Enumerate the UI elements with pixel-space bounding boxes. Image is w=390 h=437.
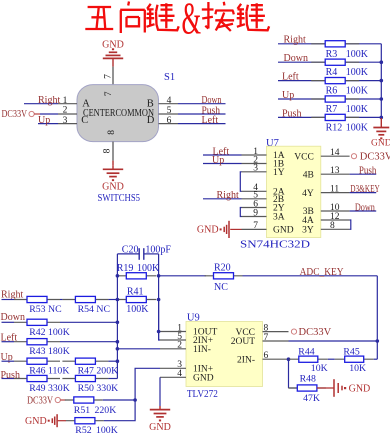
- resistor R46 110K: [14, 360, 60, 362]
- svg-text:R7: R7: [326, 104, 338, 115]
- pin 4 stub: [159, 103, 179, 105]
- junction B/R41: [157, 298, 161, 302]
- pin 6 stub: [159, 123, 179, 125]
- svg-text:D3&KEY: D3&KEY: [350, 184, 380, 195]
- U9 pin 6 (2IN-): [263, 358, 289, 360]
- pin 2 stub: [58, 113, 77, 115]
- svg-text:Push: Push: [1, 370, 20, 381]
- wire R45 to ADC bus: [374, 358, 378, 360]
- svg-text:ADC_KEY: ADC_KEY: [300, 267, 344, 278]
- wire Left row to node A: [60, 341, 117, 343]
- U7 pin 2 (1B): [242, 163, 267, 165]
- svg-text:GND: GND: [102, 182, 124, 193]
- svg-text:&: &: [182, 0, 202, 43]
- svg-text:11: 11: [330, 184, 339, 194]
- svg-text:R52: R52: [75, 425, 91, 436]
- svg-text:4: 4: [167, 96, 172, 106]
- svg-text:Right: Right: [38, 95, 60, 106]
- U7 pin 14 (VCC): [321, 155, 350, 157]
- junction A/pin2: [116, 347, 120, 351]
- wire R44 to R45: [328, 358, 335, 360]
- IC U9 body: [186, 322, 263, 387]
- resistor R41 100K: [116, 299, 156, 301]
- junction B/pin1: [157, 330, 161, 334]
- svg-text:Down: Down: [355, 202, 375, 213]
- resistor R44 10K: [289, 358, 328, 360]
- svg-text:R6: R6: [326, 86, 338, 97]
- wire net Left row: [2, 341, 15, 343]
- wire S1 pin7 stem: [112, 67, 114, 85]
- svg-text:DC33V: DC33V: [360, 152, 390, 163]
- junction A/Left: [116, 340, 120, 344]
- svg-text:4Y: 4Y: [302, 189, 314, 199]
- power port DC33V at U9 pin8: [291, 329, 296, 334]
- U7 pin 10 (3B): [321, 210, 350, 212]
- ground GND (U9 pin4): [159, 406, 161, 410]
- wire U7 pin12 to pin8 loop: [350, 220, 351, 229]
- svg-text:9: 9: [253, 208, 258, 218]
- wire DC33V to pin2: [40, 113, 58, 115]
- junction 2OUT/ADC: [376, 339, 380, 343]
- wire Push row to node A: [108, 378, 117, 380]
- wire net Down (to R4): [278, 61, 381, 63]
- svg-text:7: 7: [104, 74, 114, 79]
- U7 pin 9 (3A): [242, 216, 267, 218]
- U7 pin 11 (4Y): [321, 192, 350, 194]
- svg-text:3: 3: [253, 164, 258, 174]
- resistor R48 47K: [289, 387, 298, 389]
- svg-text:330K: 330K: [48, 383, 70, 394]
- svg-text:13: 13: [330, 166, 340, 176]
- IC U7 body: [267, 146, 321, 237]
- wire U9 pin4 to GND: [159, 377, 161, 406]
- svg-text:100K: 100K: [346, 104, 369, 115]
- wire node B vertical: [158, 254, 160, 340]
- resistor R6 100K: [311, 80, 359, 82]
- svg-text:R54: R54: [78, 304, 94, 315]
- svg-text:2: 2: [63, 106, 68, 116]
- wire Up row to node A: [108, 360, 117, 362]
- wire vertical GND bus: [380, 44, 382, 118]
- svg-text:1Y: 1Y: [273, 168, 285, 178]
- wire node A vertical: [116, 254, 118, 379]
- svg-text:R41: R41: [127, 286, 144, 297]
- svg-text:R49: R49: [29, 383, 45, 394]
- wire net Right row: [2, 299, 15, 301]
- U7 pin 5 (2B): [242, 198, 267, 200]
- svg-text:7: 7: [264, 333, 269, 343]
- svg-text:GND: GND: [149, 422, 171, 433]
- svg-text:2OUT: 2OUT: [231, 337, 255, 347]
- svg-text:100K: 100K: [137, 263, 160, 274]
- U7 pin 4 (2A): [242, 190, 267, 192]
- wire net Push row: [2, 378, 15, 380]
- resistor R19 100K: [116, 275, 156, 277]
- junction A/Down: [116, 321, 120, 325]
- resistor R47 200K: [62, 360, 108, 362]
- resistor R50 330K: [62, 378, 108, 380]
- wire net Push (to R12): [278, 116, 381, 118]
- svg-text:6: 6: [264, 351, 269, 361]
- svg-text:180K: 180K: [48, 346, 70, 357]
- svg-text:R48: R48: [300, 373, 316, 384]
- svg-text:8: 8: [330, 221, 335, 231]
- svg-text:2IN-: 2IN-: [237, 355, 255, 365]
- svg-text:R12: R12: [326, 122, 343, 133]
- svg-text:R19: R19: [117, 263, 134, 274]
- capacitor C20 100pF: [117, 253, 139, 255]
- switch S1 body: [77, 85, 159, 142]
- svg-text:Down: Down: [1, 312, 25, 323]
- wire net Push (S1 pin5): [178, 113, 226, 115]
- U7 pin 3 (1Y): [242, 171, 267, 173]
- svg-text:Right: Right: [284, 35, 306, 46]
- wire B to R20: [159, 275, 206, 277]
- resistor R45 10K: [335, 358, 374, 360]
- svg-text:14: 14: [330, 148, 340, 158]
- svg-text:GND: GND: [349, 383, 371, 394]
- svg-text:7: 7: [104, 91, 114, 96]
- U7 pin 8 (3Y): [321, 228, 350, 230]
- wire net Push from U7 pin13: [350, 173, 377, 175]
- svg-text:3: 3: [63, 116, 68, 126]
- junction node bus/R7: [380, 97, 384, 101]
- svg-text:GND: GND: [197, 225, 219, 236]
- U9 pin 2 (1IN-): [160, 348, 186, 350]
- svg-text:100K: 100K: [346, 49, 369, 60]
- resistor R52 100K: [66, 420, 104, 422]
- U9 pin 7 (2OUT): [263, 340, 289, 342]
- junction C (R51/R52/1IN+): [133, 398, 137, 402]
- wire net Right (to R3): [278, 43, 381, 45]
- svg-text:R42: R42: [29, 327, 45, 338]
- resistor R20 NC: [205, 275, 243, 277]
- svg-text:Left: Left: [202, 115, 219, 126]
- svg-text:110K: 110K: [48, 366, 69, 377]
- junction A/Up: [116, 359, 120, 363]
- resistor R53 NC: [14, 299, 60, 301]
- title 五向键&按键: [85, 2, 269, 34]
- wire R52 up to node C: [104, 400, 135, 421]
- junction A/R19: [116, 274, 120, 278]
- pin 3 stub: [58, 123, 77, 125]
- svg-text:GND: GND: [25, 416, 47, 427]
- resistor R42 100K: [14, 321, 60, 323]
- svg-text:C20: C20: [122, 244, 139, 255]
- svg-text:NC: NC: [96, 304, 110, 315]
- svg-text:4: 4: [177, 369, 182, 379]
- svg-text:Up: Up: [282, 90, 294, 101]
- ground GND bottom of S1: [112, 161, 114, 166]
- wire S1 pin8 stem: [112, 142, 114, 161]
- svg-text:Push: Push: [282, 108, 301, 119]
- junction node bus/R12: [380, 116, 384, 120]
- U7 pin 7 (GND): [242, 228, 267, 230]
- svg-text:100K: 100K: [346, 122, 369, 133]
- svg-text:220K: 220K: [95, 405, 117, 416]
- svg-text:5: 5: [167, 106, 172, 116]
- junction A/R41: [116, 298, 120, 302]
- wire net Up (to R7): [278, 98, 381, 100]
- wire net Left (to R6): [278, 80, 381, 82]
- U9 pin 5 (2IN+): [160, 339, 186, 341]
- junction node bus/R4: [380, 60, 384, 64]
- svg-text:SWITCHS5: SWITCHS5: [98, 192, 141, 204]
- svg-text:S1: S1: [164, 72, 175, 83]
- svg-text:CENTERCOMMON: CENTERCOMMON: [83, 108, 154, 119]
- wire net Up (S1 pin3): [38, 123, 58, 125]
- U9 pin 3 (1IN+): [160, 367, 186, 369]
- svg-text:Up: Up: [212, 155, 224, 166]
- junction pin6 node: [287, 357, 291, 361]
- svg-text:Up: Up: [38, 115, 50, 126]
- svg-text:DC33V: DC33V: [299, 327, 332, 338]
- wire U7 pin6 to pin9 loop: [240, 208, 241, 217]
- wire R48 to GND: [317, 387, 334, 389]
- wire net Down (S1 pin4): [178, 103, 226, 105]
- wire R51 to node C: [103, 399, 135, 401]
- wire ADC_KEY vertical: [376, 276, 378, 359]
- svg-text:10K: 10K: [349, 363, 366, 374]
- wire net Down from U7 pin10: [350, 210, 377, 212]
- wire net Right to U7 pin5: [203, 198, 242, 200]
- U7 pin 12 (4A): [321, 219, 350, 221]
- svg-text:R50: R50: [78, 383, 94, 394]
- svg-text:100pF: 100pF: [145, 244, 171, 255]
- U9 pin 1 (1OUT): [160, 331, 186, 333]
- svg-text:100K: 100K: [346, 67, 369, 78]
- U7 pin 1 (1A): [242, 154, 267, 156]
- ground GND (R network): [380, 118, 382, 124]
- svg-text:VCC: VCC: [294, 152, 314, 162]
- wire net Left to U7 pin1: [203, 154, 242, 156]
- wire net Right (S1 pin1): [24, 103, 58, 105]
- svg-text:1IN-: 1IN-: [193, 345, 211, 355]
- wire B to pin1: [159, 331, 160, 333]
- svg-text:R43: R43: [29, 346, 45, 357]
- resistor R54 NC: [62, 299, 108, 301]
- pin 5 stub: [159, 113, 179, 115]
- svg-text:GND: GND: [193, 374, 214, 384]
- svg-text:Push: Push: [359, 166, 377, 177]
- wire U9 pin7 (2OUT) to ADC bus: [289, 340, 378, 342]
- resistor R12 100K: [311, 116, 359, 118]
- svg-text:3Y: 3Y: [302, 226, 314, 236]
- wire net Up row: [2, 360, 15, 362]
- wire Right row to node A: [108, 299, 117, 301]
- svg-text:R20: R20: [214, 262, 231, 273]
- wire between R53 R54: [60, 299, 62, 301]
- svg-text:2: 2: [177, 341, 182, 351]
- resistor R43 180K: [14, 341, 60, 343]
- wire net D3&KEY from U7 pin11: [350, 192, 377, 194]
- svg-text:330K: 330K: [96, 383, 118, 394]
- svg-text:1: 1: [63, 96, 68, 106]
- wire node B down to U9 pin1/pin5: [159, 300, 160, 341]
- svg-text:200K: 200K: [96, 366, 118, 377]
- wire Down row to node A: [60, 321, 117, 323]
- svg-text:100K: 100K: [346, 86, 369, 97]
- svg-text:6: 6: [167, 116, 172, 126]
- wire U7 pin3 to pin4 loop: [240, 172, 241, 192]
- U7 pin 13 (4B): [321, 173, 350, 175]
- wire node C to U9 pin3: [135, 368, 160, 400]
- power port DC33V at U7 pin14: [351, 154, 356, 159]
- svg-text:R53: R53: [29, 304, 45, 315]
- svg-text:8: 8: [103, 148, 113, 153]
- svg-text:R51: R51: [74, 405, 90, 416]
- svg-text:3A: 3A: [273, 213, 285, 223]
- svg-text:4B: 4B: [303, 170, 314, 180]
- resistor R3 100K: [311, 43, 359, 45]
- svg-text:TLV272: TLV272: [187, 388, 218, 400]
- resistor R49 330K: [14, 378, 60, 380]
- wire net Down row: [2, 321, 15, 323]
- wire net ADC_KEY: [243, 275, 378, 277]
- resistor R4 100K: [311, 61, 359, 63]
- svg-text:100K: 100K: [126, 304, 149, 315]
- wire pin6 node down to R48: [288, 359, 290, 388]
- pin 1 stub: [58, 103, 77, 105]
- wire net Up to U7 pin2: [203, 163, 242, 165]
- svg-text:GND: GND: [273, 226, 294, 236]
- svg-text:R4: R4: [326, 67, 338, 78]
- svg-text:NC: NC: [48, 304, 62, 315]
- svg-text:100K: 100K: [48, 327, 70, 338]
- svg-text:NC: NC: [214, 282, 228, 293]
- svg-text:R3: R3: [326, 49, 338, 60]
- svg-text:SN74HC32D: SN74HC32D: [240, 239, 310, 251]
- resistor R51 220K: [65, 399, 103, 401]
- svg-text:100K: 100K: [96, 425, 118, 436]
- svg-text:Right: Right: [1, 290, 23, 301]
- wire net Left (S1 pin6): [178, 123, 226, 125]
- junction node bus/R6: [380, 79, 384, 83]
- svg-text:R44: R44: [298, 346, 314, 357]
- svg-text:Right: Right: [217, 190, 239, 201]
- svg-text:GND: GND: [371, 138, 390, 148]
- wire node A to U9 pin2: [117, 348, 160, 350]
- svg-text:Left: Left: [282, 72, 299, 83]
- svg-text:DC33V: DC33V: [27, 396, 53, 407]
- ground GND (R48): [333, 379, 335, 397]
- junction B/R19: [157, 274, 161, 278]
- svg-text:47K: 47K: [303, 393, 320, 404]
- svg-text:Down: Down: [284, 53, 308, 64]
- resistor R7 100K: [311, 98, 359, 100]
- U7 pin 6 (2Y): [242, 207, 267, 209]
- svg-text:R45: R45: [343, 346, 359, 357]
- svg-text:7: 7: [253, 221, 258, 231]
- svg-text:8: 8: [107, 130, 117, 135]
- svg-text:DC33V: DC33V: [2, 109, 28, 120]
- U9 pin 8 (VCC): [263, 331, 289, 333]
- U9 pin 4 (GND): [160, 376, 186, 378]
